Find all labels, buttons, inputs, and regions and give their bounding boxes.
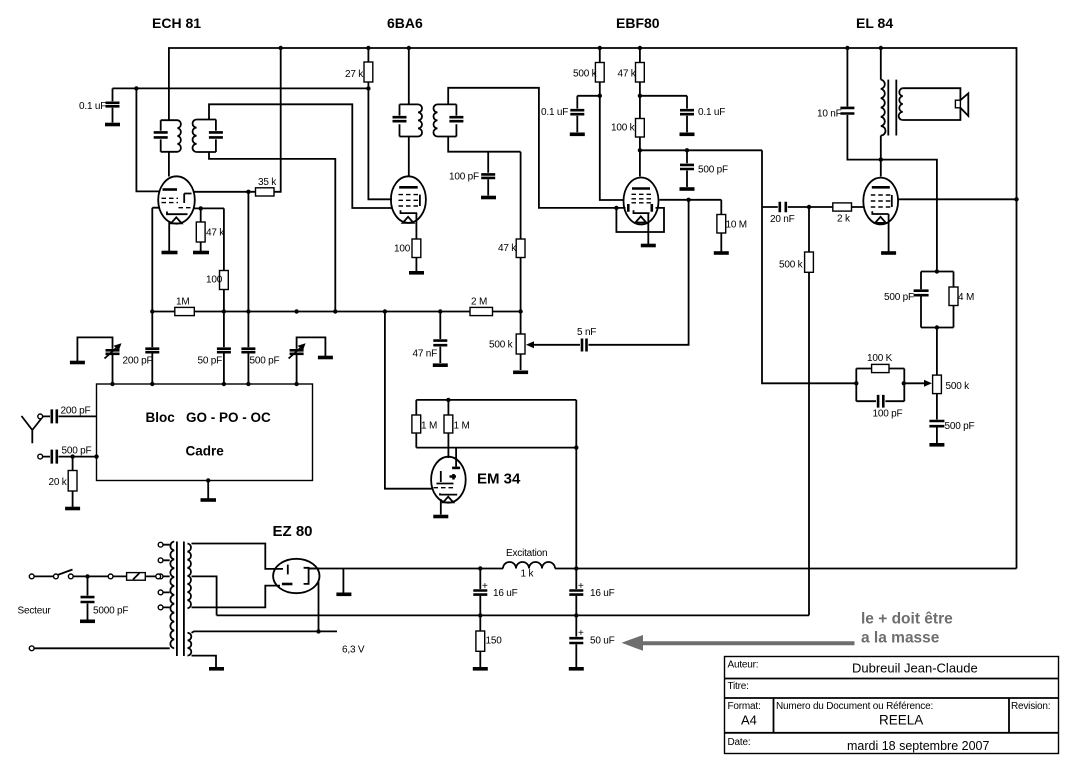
svg-text:Bloc GO - PO - OC: Bloc GO - PO - OC bbox=[146, 410, 272, 425]
svg-text:Numero du Document ou Référenc: Numero du Document ou Référence: bbox=[776, 701, 933, 712]
svg-text:1M: 1M bbox=[176, 297, 190, 308]
svg-text:500 k: 500 k bbox=[946, 381, 971, 392]
svg-text:EM 34: EM 34 bbox=[477, 471, 521, 488]
svg-text:4 M: 4 M bbox=[958, 292, 974, 303]
svg-text:16 uF: 16 uF bbox=[493, 588, 518, 599]
svg-text:a la masse: a la masse bbox=[861, 630, 940, 647]
svg-text:Revision:: Revision: bbox=[1011, 701, 1050, 712]
svg-text:500 pF: 500 pF bbox=[698, 165, 728, 176]
svg-text:mardi 18 septembre 2007: mardi 18 septembre 2007 bbox=[847, 739, 989, 753]
svg-text:Excitation: Excitation bbox=[506, 548, 547, 559]
svg-text:ECH 81: ECH 81 bbox=[152, 15, 201, 31]
svg-text:0.1 uF: 0.1 uF bbox=[79, 101, 106, 112]
svg-text:EZ 80: EZ 80 bbox=[273, 523, 313, 540]
svg-text:500 pF: 500 pF bbox=[250, 356, 280, 367]
svg-text:+: + bbox=[578, 581, 584, 592]
svg-text:Date:: Date: bbox=[728, 737, 751, 748]
svg-text:le + doit être: le + doit être bbox=[861, 611, 953, 628]
svg-text:0.1 uF: 0.1 uF bbox=[541, 107, 568, 118]
svg-text:+: + bbox=[482, 581, 488, 592]
svg-text:500 pF: 500 pF bbox=[884, 292, 914, 303]
svg-text:16 uF: 16 uF bbox=[590, 588, 615, 599]
svg-text:2 M: 2 M bbox=[471, 297, 487, 308]
svg-text:500 pF: 500 pF bbox=[945, 421, 975, 432]
svg-text:500 k: 500 k bbox=[573, 69, 598, 80]
svg-text:27 k: 27 k bbox=[345, 69, 364, 80]
svg-text:REELA: REELA bbox=[879, 713, 923, 728]
svg-text:Auteur:: Auteur: bbox=[728, 660, 759, 671]
svg-text:Cadre: Cadre bbox=[186, 444, 225, 459]
svg-text:47 nF: 47 nF bbox=[413, 349, 438, 360]
svg-text:47 k: 47 k bbox=[206, 228, 225, 239]
svg-text:500 pF: 500 pF bbox=[62, 446, 92, 457]
svg-text:Titre:: Titre: bbox=[728, 681, 749, 692]
svg-text:1 M: 1 M bbox=[454, 421, 470, 432]
svg-text:100: 100 bbox=[206, 275, 223, 286]
svg-text:0.1 uF: 0.1 uF bbox=[698, 107, 725, 118]
svg-text:Dubreuil Jean-Claude: Dubreuil Jean-Claude bbox=[852, 661, 978, 676]
svg-text:A4: A4 bbox=[741, 713, 757, 728]
svg-text:100 K: 100 K bbox=[867, 353, 893, 364]
svg-text:20 nF: 20 nF bbox=[770, 214, 795, 225]
svg-text:100 k: 100 k bbox=[611, 123, 636, 134]
svg-text:1 M: 1 M bbox=[421, 421, 437, 432]
svg-text:EBF80: EBF80 bbox=[616, 15, 660, 31]
svg-text:10 M: 10 M bbox=[726, 220, 747, 231]
svg-text:6BA6: 6BA6 bbox=[387, 15, 423, 31]
svg-text:150: 150 bbox=[486, 636, 503, 647]
svg-text:6,3 V: 6,3 V bbox=[342, 645, 365, 656]
svg-text:2 k: 2 k bbox=[837, 214, 851, 225]
svg-text:100 pF: 100 pF bbox=[449, 172, 479, 183]
svg-text:Format:: Format: bbox=[728, 701, 761, 712]
svg-text:5 nF: 5 nF bbox=[577, 327, 596, 338]
svg-text:5000 pF: 5000 pF bbox=[93, 606, 128, 617]
svg-text:EL 84: EL 84 bbox=[856, 15, 893, 31]
svg-text:500 k: 500 k bbox=[489, 340, 514, 351]
svg-text:100: 100 bbox=[394, 244, 411, 255]
svg-text:200 pF: 200 pF bbox=[123, 356, 153, 367]
svg-text:47 k: 47 k bbox=[498, 243, 517, 254]
svg-text:Secteur: Secteur bbox=[18, 606, 52, 617]
svg-text:200 pF: 200 pF bbox=[61, 406, 91, 417]
svg-text:1 k: 1 k bbox=[521, 569, 535, 580]
svg-text:10 nF: 10 nF bbox=[817, 109, 842, 120]
svg-text:500 k: 500 k bbox=[779, 260, 804, 271]
svg-text:47 k: 47 k bbox=[618, 69, 637, 80]
svg-text:100 pF: 100 pF bbox=[873, 409, 903, 420]
svg-text:50 uF: 50 uF bbox=[590, 636, 615, 647]
svg-text:+: + bbox=[578, 628, 584, 639]
svg-text:35 k: 35 k bbox=[258, 177, 277, 188]
svg-text:20 k: 20 k bbox=[49, 477, 68, 488]
svg-text:50 pF: 50 pF bbox=[198, 356, 223, 367]
